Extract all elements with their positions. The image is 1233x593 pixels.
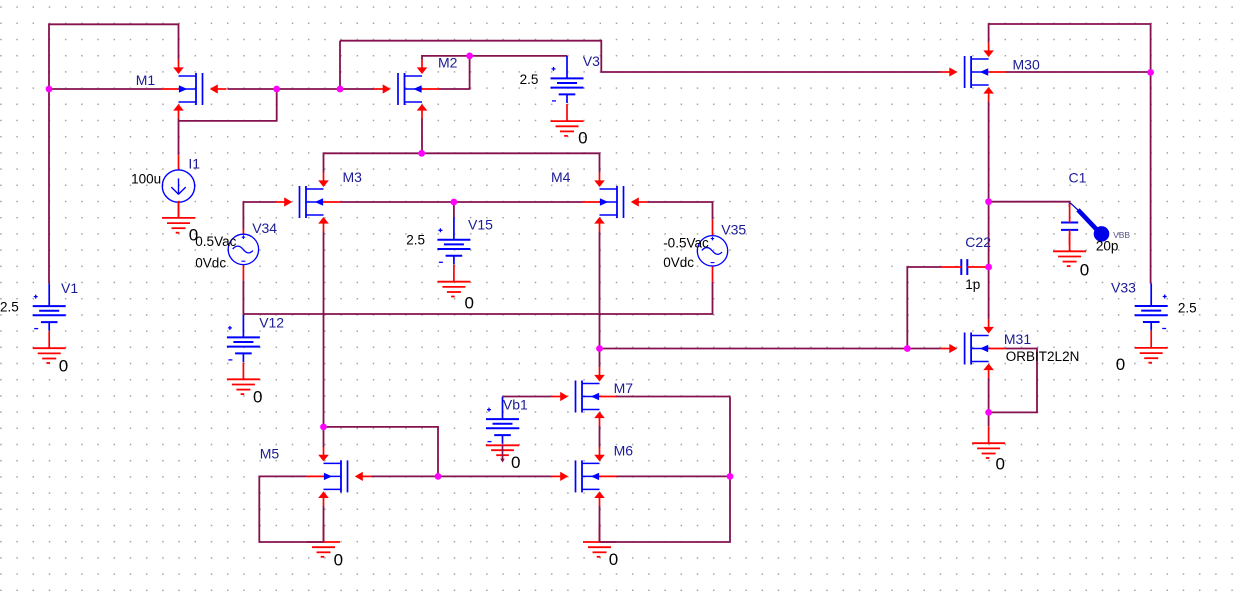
wire M1 source down to I1 bbox=[178, 118, 180, 155]
ground under V15 bbox=[437, 265, 470, 297]
svg-text:0Vdc: 0Vdc bbox=[663, 255, 694, 270]
voltage source V33 bbox=[1135, 284, 1168, 331]
wire M5 source to ground bbox=[323, 506, 325, 542]
svg-text:2.5: 2.5 bbox=[520, 72, 539, 87]
wire M30 bulk to right rail bbox=[1006, 71, 1151, 73]
probe marker VBB bbox=[1070, 203, 1109, 242]
capacitor C1 bbox=[1061, 204, 1078, 245]
voltage source Vb1 bbox=[486, 397, 519, 444]
svg-text:V34: V34 bbox=[252, 220, 277, 236]
ground under V12 bbox=[227, 362, 260, 394]
node M1 gate/source bbox=[273, 86, 280, 93]
capacitor C22 bbox=[941, 259, 989, 275]
ground under Vb1 (rotated) bbox=[486, 445, 519, 463]
wire M2 gate-drain tie bbox=[439, 56, 470, 89]
ground under V1 bbox=[33, 331, 66, 363]
transistor M31 bbox=[941, 319, 1006, 378]
wire M3 source down to M5 drain node bbox=[323, 231, 325, 427]
transistor M4 bbox=[583, 173, 648, 232]
wire M1 gate bus to M2 gate bbox=[228, 88, 375, 90]
svg-text:M4: M4 bbox=[551, 169, 571, 185]
wire M4 gate to V35 top bbox=[648, 202, 713, 220]
voltage source V15 bbox=[437, 217, 470, 264]
node M5 gate bus corner bbox=[435, 473, 442, 480]
wire M5 bulk loop to ground leg bbox=[259, 476, 323, 542]
wire M31 bulk loop bbox=[989, 349, 1037, 413]
wire M7 source to M6 drain bbox=[599, 426, 601, 448]
voltage source V3 bbox=[551, 56, 584, 103]
ground under M5 bbox=[307, 525, 340, 557]
wire C22 left branch bbox=[907, 267, 941, 349]
node M6 bulk leg bbox=[727, 473, 734, 480]
wire top-left rail from V1 to M1 drain bbox=[49, 24, 179, 283]
svg-text:C22: C22 bbox=[965, 234, 991, 250]
svg-text:M1: M1 bbox=[136, 72, 156, 88]
node M31 source/bulk bbox=[985, 409, 992, 416]
svg-text:M7: M7 bbox=[614, 380, 634, 396]
wire M31 gate bus bbox=[600, 348, 941, 350]
svg-text:Vb1: Vb1 bbox=[503, 396, 528, 412]
wire M5 drain stub bbox=[323, 427, 325, 447]
svg-text:V35: V35 bbox=[721, 222, 746, 238]
wire vertical from upper rail to gate bus bbox=[339, 41, 341, 89]
ground under V3 bbox=[551, 104, 584, 136]
svg-text:V33: V33 bbox=[1111, 280, 1136, 296]
wire M2 drain to V3 top bbox=[422, 56, 567, 60]
svg-text:ORBIT2L2N: ORBIT2L2N bbox=[1006, 349, 1080, 364]
wire M7 gate to Vb1 bbox=[503, 396, 552, 398]
svg-text:0Vdc: 0Vdc bbox=[195, 256, 226, 271]
current source I1 bbox=[162, 155, 194, 218]
ground under M31 bbox=[972, 426, 1005, 458]
wire V35 bottom to V12 node bbox=[243, 282, 712, 315]
svg-text:100u: 100u bbox=[131, 172, 161, 187]
node M2 gate-drain bbox=[466, 53, 473, 60]
svg-text:M2: M2 bbox=[438, 55, 458, 71]
svg-text:0: 0 bbox=[578, 129, 587, 148]
node M5 drain branch bbox=[320, 424, 327, 431]
svg-text:2.5: 2.5 bbox=[0, 300, 19, 315]
wire M6 source to ground bbox=[599, 506, 601, 542]
transistor M6 bbox=[552, 447, 617, 506]
svg-text:M6: M6 bbox=[614, 443, 634, 459]
voltage source V34 bbox=[228, 229, 258, 281]
svg-text:M31: M31 bbox=[1004, 331, 1031, 347]
svg-text:0: 0 bbox=[334, 550, 343, 569]
ground under V33 bbox=[1135, 331, 1168, 363]
node M7 drain / M31 gate bus bbox=[596, 345, 603, 352]
node C1 branch bbox=[985, 198, 992, 205]
ground under M6 bbox=[583, 525, 616, 557]
svg-text:2.5: 2.5 bbox=[406, 233, 425, 248]
svg-text:0: 0 bbox=[465, 294, 474, 313]
node top-right rail bbox=[1147, 69, 1154, 76]
svg-text:V15: V15 bbox=[468, 217, 493, 233]
ground under I1 bbox=[162, 201, 195, 233]
svg-text:0: 0 bbox=[996, 455, 1005, 474]
wire M7 bulk to right leg bbox=[616, 396, 730, 398]
svg-text:C1: C1 bbox=[1069, 170, 1087, 186]
svg-text:0: 0 bbox=[189, 225, 198, 244]
node V1/M1 bulk bbox=[46, 86, 53, 93]
transistor M5 bbox=[307, 447, 372, 506]
wire C1 branch bbox=[989, 202, 1070, 207]
node V15 top bbox=[451, 199, 458, 206]
wire M31 source to ground bbox=[988, 378, 990, 427]
svg-text:M3: M3 bbox=[343, 169, 363, 185]
wire M1 source branch up to gate bus bbox=[179, 89, 277, 121]
node gate bus / upper rail bbox=[337, 86, 344, 93]
svg-text:M30: M30 bbox=[1013, 56, 1040, 72]
svg-text:0: 0 bbox=[609, 550, 618, 569]
wire right leg M7/M6 bulk down to M6 ground bbox=[600, 397, 731, 543]
voltage source V35 bbox=[697, 220, 727, 282]
svg-text:I1: I1 bbox=[188, 156, 200, 172]
wire M3 bulk to M4 bulk bbox=[341, 201, 583, 203]
svg-text:0: 0 bbox=[1116, 355, 1125, 374]
transistor M3 bbox=[276, 173, 341, 232]
svg-text:2.5: 2.5 bbox=[1178, 301, 1197, 316]
wire M4 source down to M7 drain bbox=[599, 231, 601, 367]
wire M30 source down to M31 drain bbox=[988, 101, 990, 319]
svg-text:0.5Vac: 0.5Vac bbox=[195, 234, 236, 249]
voltage source V12 bbox=[227, 315, 260, 362]
node C22 / M31 gate bbox=[904, 345, 911, 352]
svg-text:20p: 20p bbox=[1096, 239, 1119, 254]
svg-text:V3: V3 bbox=[583, 53, 600, 69]
node C22 right bbox=[985, 264, 992, 271]
node M2 source on mid rail bbox=[418, 150, 425, 157]
wire M5/M6 gate bus bbox=[372, 475, 552, 477]
svg-text:VBB: VBB bbox=[1113, 230, 1130, 240]
wire M6 bulk to right leg bbox=[616, 475, 730, 477]
svg-text:0: 0 bbox=[59, 357, 68, 376]
wire M5 drain node across to gate bus bbox=[324, 427, 439, 477]
svg-text:V12: V12 bbox=[259, 315, 284, 331]
wire V34 bottom bbox=[242, 280, 244, 314]
svg-text:-0.5Vac: -0.5Vac bbox=[663, 235, 709, 250]
svg-text:0: 0 bbox=[253, 388, 262, 407]
svg-text:0: 0 bbox=[511, 453, 520, 472]
svg-text:V1: V1 bbox=[61, 280, 78, 296]
wire V34 top to M3 gate bbox=[243, 202, 275, 230]
wire M1 bulk from left node bbox=[49, 88, 162, 90]
wire M30 drain to top-right rail down to V33 bbox=[989, 24, 1151, 284]
transistor M7 bbox=[552, 367, 617, 426]
wire V15 top bbox=[453, 202, 455, 217]
wire M2 source down to mid rail bbox=[421, 118, 423, 153]
voltage source V1 bbox=[33, 284, 66, 331]
svg-text:M5: M5 bbox=[260, 446, 280, 462]
ground under C1 bbox=[1053, 234, 1086, 266]
svg-text:1p: 1p bbox=[965, 277, 980, 292]
transistor M2 bbox=[374, 60, 439, 119]
svg-text:0: 0 bbox=[1080, 261, 1089, 280]
transistor M1 bbox=[162, 60, 227, 119]
transistor M30 bbox=[941, 43, 1006, 102]
wire mid rail M3 drain to M4 drain bbox=[324, 153, 600, 173]
junction nodes bbox=[46, 53, 1154, 480]
wire upper rail to M30 gate bbox=[340, 41, 941, 72]
